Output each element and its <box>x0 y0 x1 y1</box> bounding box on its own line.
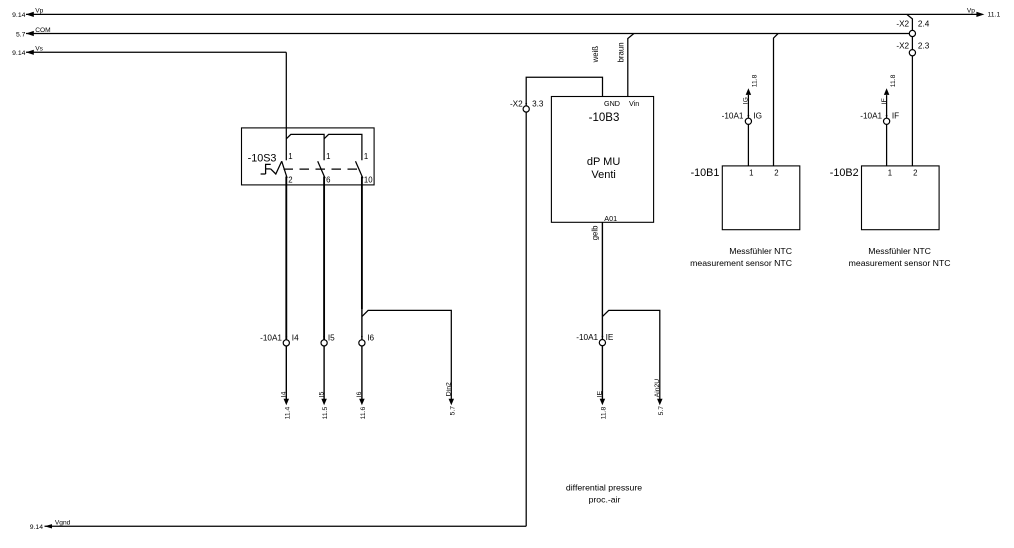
svg-text:-10S3: -10S3 <box>248 153 277 165</box>
wire gelb: -10B3 A01 to terminal -10A1:IE <box>601 222 603 339</box>
switch contact 1 blade <box>282 161 287 178</box>
terminal -10A1:IF <box>884 118 890 124</box>
svg-text:9.14: 9.14 <box>12 50 25 57</box>
svg-text:I6: I6 <box>367 333 374 342</box>
arrow up IG <box>746 88 752 95</box>
svg-text:6: 6 <box>326 176 330 185</box>
svg-text:11.1: 11.1 <box>988 12 1001 19</box>
wire terminal IG up arrow 11.8 <box>747 95 749 118</box>
svg-text:1: 1 <box>288 152 292 161</box>
svg-text:11.8: 11.8 <box>752 74 759 87</box>
svg-text:Ain2U: Ain2U <box>654 379 661 398</box>
wire terminal I6 to sheet arrow 11.6 <box>361 346 363 399</box>
wire braun: COM to -10B3 Vin <box>628 34 634 97</box>
terminal -10A1:IE <box>599 340 605 346</box>
wire Vgnd bus <box>45 112 527 528</box>
svg-text:Messfühler NTC: Messfühler NTC <box>868 246 931 256</box>
wire -10B2 pin1 to terminal -10A1:IF <box>886 124 888 165</box>
terminal -10A1:I6 <box>359 340 365 346</box>
svg-text:Din2: Din2 <box>446 382 453 396</box>
wire COM bus <box>26 31 910 36</box>
wire Vs drop to switch -10S3 contact 1 <box>285 52 287 160</box>
wire contact1 pin2 to terminal -10A1:I4 <box>285 177 287 340</box>
svg-text:measurement sensor NTC: measurement sensor NTC <box>849 258 951 268</box>
svg-text:9.14: 9.14 <box>12 12 25 19</box>
wire Vs bus <box>26 50 287 55</box>
svg-text:differential pressure: differential pressure <box>566 483 642 493</box>
wire terminal I5 to sheet arrow 11.5 <box>323 346 325 399</box>
svg-text:-10A1: -10A1 <box>260 333 282 342</box>
svg-text:-10A1: -10A1 <box>722 112 744 121</box>
wire contact2 pin6 to terminal -10A1:I5 <box>323 177 325 340</box>
wire -10B1 pin1 to terminal -10A1:IG <box>747 124 749 165</box>
svg-text:3.3: 3.3 <box>532 100 544 109</box>
svg-text:COM: COM <box>35 27 50 34</box>
svg-text:2: 2 <box>774 169 778 178</box>
switch -10S3 manual operator <box>261 161 282 174</box>
svg-text:-10A1: -10A1 <box>860 112 882 121</box>
svg-text:11.8: 11.8 <box>601 406 608 419</box>
switch -10S3 box <box>242 128 375 185</box>
svg-text:IF: IF <box>892 112 899 121</box>
wire jumper contact1 to contact2 <box>286 134 324 160</box>
wire COM to -10B1 pin2 <box>774 34 779 166</box>
svg-text:11.5: 11.5 <box>322 406 329 419</box>
svg-text:Vp: Vp <box>967 8 975 15</box>
svg-text:10: 10 <box>364 176 373 185</box>
svg-text:Vgnd: Vgnd <box>55 520 71 527</box>
junction dot IF <box>886 115 888 117</box>
terminal -X2:2.3 <box>909 50 915 56</box>
svg-text:5.7: 5.7 <box>449 406 456 416</box>
switch -10S3 mechanical linkage (dashed) <box>284 168 360 170</box>
wire Vp bus <box>26 12 985 17</box>
svg-text:9.14: 9.14 <box>30 524 43 531</box>
svg-text:IG: IG <box>753 112 762 121</box>
svg-text:Vs: Vs <box>35 46 43 53</box>
svg-text:IE: IE <box>606 333 614 342</box>
svg-text:IE: IE <box>597 390 604 397</box>
wire terminal IF up arrow 11.8 <box>886 95 888 118</box>
svg-text:1: 1 <box>888 169 892 178</box>
junction dot I6 <box>361 336 363 338</box>
arrow down I5 <box>321 399 327 406</box>
junction dot IG <box>748 115 750 117</box>
switch contact 3 blade <box>356 161 363 178</box>
svg-text:I5: I5 <box>318 391 325 397</box>
wire branch I6 to Din2 arrow <box>362 310 451 399</box>
wire jumper contact2 to contact3 <box>324 134 362 160</box>
svg-text:I4: I4 <box>281 391 288 397</box>
terminal -10A1:IG <box>745 118 751 124</box>
svg-text:2.3: 2.3 <box>918 41 930 50</box>
junction dot I5 <box>323 336 325 338</box>
wire terminal -X2:2.4 to -X2:2.3 <box>911 37 913 50</box>
svg-text:Vin: Vin <box>629 99 639 108</box>
svg-text:weiß: weiß <box>591 46 600 64</box>
svg-text:IG: IG <box>742 97 749 104</box>
arrow up IF <box>884 88 890 95</box>
device -10B2 box <box>862 166 940 230</box>
svg-text:I5: I5 <box>328 333 335 342</box>
svg-text:5.7: 5.7 <box>658 406 665 416</box>
svg-text:-10B1: -10B1 <box>691 167 720 179</box>
svg-text:GND: GND <box>604 99 620 108</box>
wire terminal I4 to sheet arrow 11.4 <box>285 346 287 399</box>
junction dot X2-3.3 <box>525 103 527 105</box>
svg-text:Messfühler NTC: Messfühler NTC <box>729 246 792 256</box>
wire branch IE to Ain2U arrow <box>602 310 659 399</box>
svg-text:braun: braun <box>616 42 625 62</box>
svg-text:A01: A01 <box>604 214 617 223</box>
terminal -10A1:I5 <box>321 340 327 346</box>
device -10B1 box <box>722 166 800 230</box>
svg-text:5.7: 5.7 <box>16 31 26 38</box>
wire tap Vp to terminal -X2:2.4 <box>907 14 913 30</box>
svg-text:gelb: gelb <box>590 225 599 240</box>
svg-text:-10B3: -10B3 <box>589 112 620 124</box>
svg-text:11.6: 11.6 <box>360 406 367 419</box>
svg-text:dP MU: dP MU <box>587 156 620 168</box>
wire weiss: -X2:3.3 to -10B3 GND <box>526 77 602 106</box>
svg-text:IF: IF <box>881 98 888 104</box>
svg-text:-X2: -X2 <box>896 41 909 50</box>
junction dot I4 <box>285 336 287 338</box>
svg-text:-X2: -X2 <box>510 100 523 109</box>
arrow down I6 <box>359 399 365 406</box>
svg-text:2: 2 <box>913 169 917 178</box>
svg-text:Vp: Vp <box>35 8 43 15</box>
svg-text:I6: I6 <box>356 391 363 397</box>
terminal -X2:3.3 <box>523 106 529 112</box>
arrow down I4 <box>284 399 290 406</box>
svg-text:1: 1 <box>749 169 753 178</box>
svg-text:-X2: -X2 <box>896 20 909 29</box>
terminal -X2:2.4 <box>909 30 915 36</box>
wire contact3 pin10 to terminal -10A1:I6 <box>361 177 363 310</box>
device -10B3 box <box>551 97 653 223</box>
svg-text:-10B2: -10B2 <box>830 167 859 179</box>
arrow down IE <box>600 399 606 406</box>
svg-text:-10A1: -10A1 <box>576 333 598 342</box>
svg-text:proc.-air: proc.-air <box>589 494 621 504</box>
wire terminal -X2:2.3 to -10B2 pin 2 <box>911 56 913 166</box>
terminal -10A1:I4 <box>283 340 289 346</box>
svg-text:I4: I4 <box>292 333 299 342</box>
svg-text:11.4: 11.4 <box>284 406 291 419</box>
wire terminal IE to sheet arrow 11.8 <box>601 346 603 400</box>
junction dot IE <box>602 336 604 338</box>
svg-text:1: 1 <box>364 152 368 161</box>
svg-text:11.8: 11.8 <box>890 74 897 87</box>
svg-text:1: 1 <box>326 152 330 161</box>
svg-text:2.4: 2.4 <box>918 20 930 29</box>
switch contact 2 blade <box>318 161 325 178</box>
svg-text:Venti: Venti <box>591 169 615 181</box>
svg-text:2: 2 <box>288 176 292 185</box>
svg-text:measurement sensor NTC: measurement sensor NTC <box>690 258 792 268</box>
arrow down Din2 <box>449 399 455 406</box>
arrow down Ain2U <box>657 399 663 406</box>
